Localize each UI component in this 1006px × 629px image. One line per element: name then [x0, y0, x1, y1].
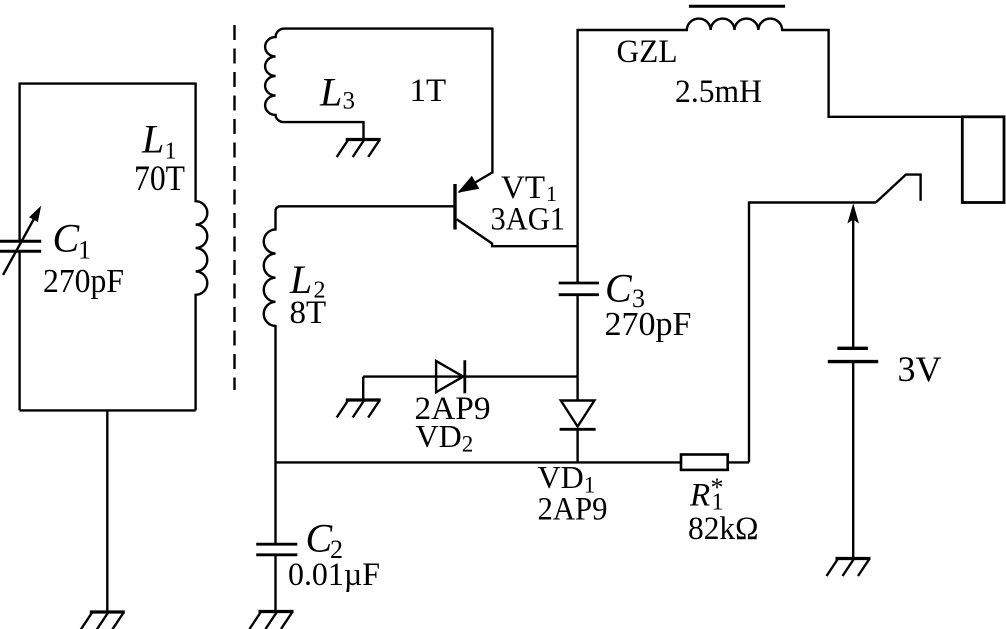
wire: tank loop bottom edge — [20, 409, 196, 411]
wire: battery to ground — [852, 362, 854, 558]
ground (VD2) — [337, 400, 381, 418]
svg-text:2: 2 — [462, 432, 474, 457]
ground (L3) — [337, 140, 381, 158]
inductor GZL top wire with 4 loops — [578, 19, 963, 117]
svg-text:1: 1 — [78, 236, 91, 265]
capacitor C1 (variable) plates — [0, 241, 41, 251]
wire: main vertical node (collector/C3) — [576, 29, 578, 283]
battery GB plates — [837, 347, 868, 350]
capacitor C1 variable arrow — [3, 216, 36, 276]
dashed coupling line — [233, 25, 235, 390]
wire: tank loop top edge — [20, 82, 196, 84]
ground (battery) — [827, 559, 871, 577]
svg-text:8T: 8T — [290, 295, 327, 331]
svg-text:L: L — [141, 117, 164, 162]
wire: emitter up to L3 top wire — [491, 28, 493, 174]
svg-text:VD: VD — [538, 459, 584, 495]
svg-text:0.01µF: 0.01µF — [288, 557, 380, 593]
inductor GZL core bar — [689, 5, 785, 8]
svg-text:R: R — [689, 478, 710, 514]
capacitor C2 plates — [256, 544, 297, 555]
inductor L2 (8 turns) down to C2 — [264, 206, 455, 544]
wire: C3 to VD1 — [576, 295, 578, 401]
wire: tank loop left edge upper (to C1) — [18, 83, 20, 242]
switch S wire — [749, 201, 876, 203]
inductor L3 (1 turn) with top wire to emitter — [265, 29, 492, 139]
battery GB arrow to switch wire — [852, 219, 854, 347]
svg-text:C: C — [605, 266, 633, 311]
wire: R1 to right corner — [728, 461, 749, 463]
diode VD1 (vertical, pointing down) — [561, 401, 595, 427]
svg-text:82kΩ: 82kΩ — [688, 511, 759, 547]
inductor L1 (right edge of tank, 4 loops) — [196, 83, 208, 411]
diode VD2 wire — [363, 375, 577, 377]
wire: tank loop left edge lower (from C1) — [18, 251, 20, 410]
wire: VD2 anode to ground — [362, 377, 364, 399]
wire: tank bottom to ground — [106, 410, 108, 612]
svg-text:70T: 70T — [134, 158, 185, 198]
switch S blade and contact — [876, 175, 921, 203]
resistor R1 — [681, 455, 728, 470]
svg-text:270pF: 270pF — [605, 306, 692, 343]
diode VD2 (horizontal, pointing right) — [436, 361, 463, 392]
svg-text:270pF: 270pF — [43, 263, 124, 300]
svg-text:3AG1: 3AG1 — [491, 201, 566, 237]
capacitor C3 plates — [559, 283, 599, 295]
svg-text:VD: VD — [416, 418, 462, 454]
ground (below tank) — [81, 612, 125, 629]
earphone (headphone jack box) — [962, 117, 1004, 203]
transistor VT1 base bar — [453, 184, 456, 230]
svg-text:3: 3 — [343, 88, 356, 115]
wire: switch to bus right side — [748, 201, 750, 462]
svg-text:1T: 1T — [410, 73, 447, 109]
svg-text:L: L — [319, 69, 342, 114]
svg-text:C: C — [53, 215, 81, 260]
ground (C2) — [250, 612, 294, 629]
transistor VT1 emitter (arrow into base, PNP) — [459, 172, 492, 192]
svg-text:2.5mH: 2.5mH — [675, 74, 762, 110]
svg-text:2AP9: 2AP9 — [538, 492, 608, 528]
ground bus wire (left of R1) — [276, 461, 683, 463]
wire: C2 to ground — [274, 555, 276, 611]
svg-text:GZL: GZL — [617, 34, 678, 70]
transistor VT1 collector — [457, 219, 578, 246]
svg-text:3V: 3V — [898, 349, 942, 389]
wire: VD1 to ground bus — [576, 429, 578, 462]
